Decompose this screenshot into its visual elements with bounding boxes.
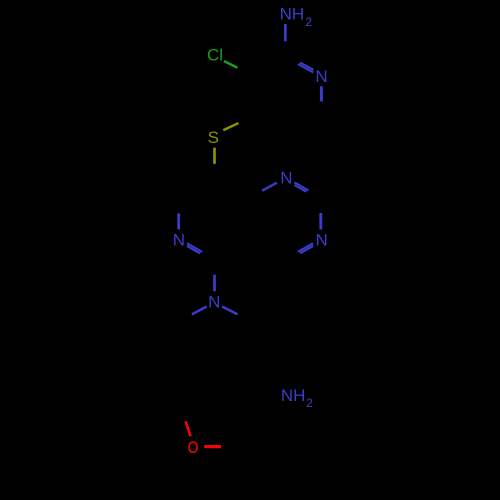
svg-text:S: S: [208, 128, 219, 147]
svg-text:Cl: Cl: [207, 46, 223, 65]
svg-text:N: N: [280, 169, 292, 188]
svg-text:N: N: [208, 293, 220, 312]
bond stub Npip-C5 core (N half): [213, 275, 216, 292]
bond stub Npip-CH2 left (N half): [192, 307, 207, 315]
bond stub S-C8 pyridopyrimidine (S half): [213, 148, 216, 164]
bond stub Cl-C3 (Cl half): [224, 61, 237, 68]
bond stub N1-C6 pyridine (N half): [320, 86, 323, 101]
bond stub NH2-C2 (N half): [284, 24, 287, 41]
bond stub N7-C7 (N half): [177, 213, 180, 229]
svg-text:O: O: [188, 438, 199, 457]
double bond stub N1=C2 pyrimidine (double bond pair): [295, 182, 309, 190]
bond stub N3-C2 pyrimidine (N half): [319, 213, 322, 230]
double bond stub C2=N1 pyridine (double bond pair): [298, 64, 314, 72]
bond stub O-CH2 upper (O half): [186, 421, 191, 436]
bond stub S-C4 pyridine (S half): [223, 123, 238, 130]
bond stub Npip-CH2 right (N half): [222, 307, 237, 315]
svg-text:N: N: [173, 231, 185, 250]
bond stub N1-C8a (N half): [262, 183, 277, 191]
svg-text:N: N: [315, 67, 327, 86]
bond stub O-CH2 right (O half): [204, 445, 221, 448]
svg-text:N: N: [316, 231, 328, 250]
double bond stub N3=C4 pyrimidine (double bond pair): [298, 243, 313, 252]
double bond stub N7=C6a (double bond pair): [187, 243, 202, 252]
